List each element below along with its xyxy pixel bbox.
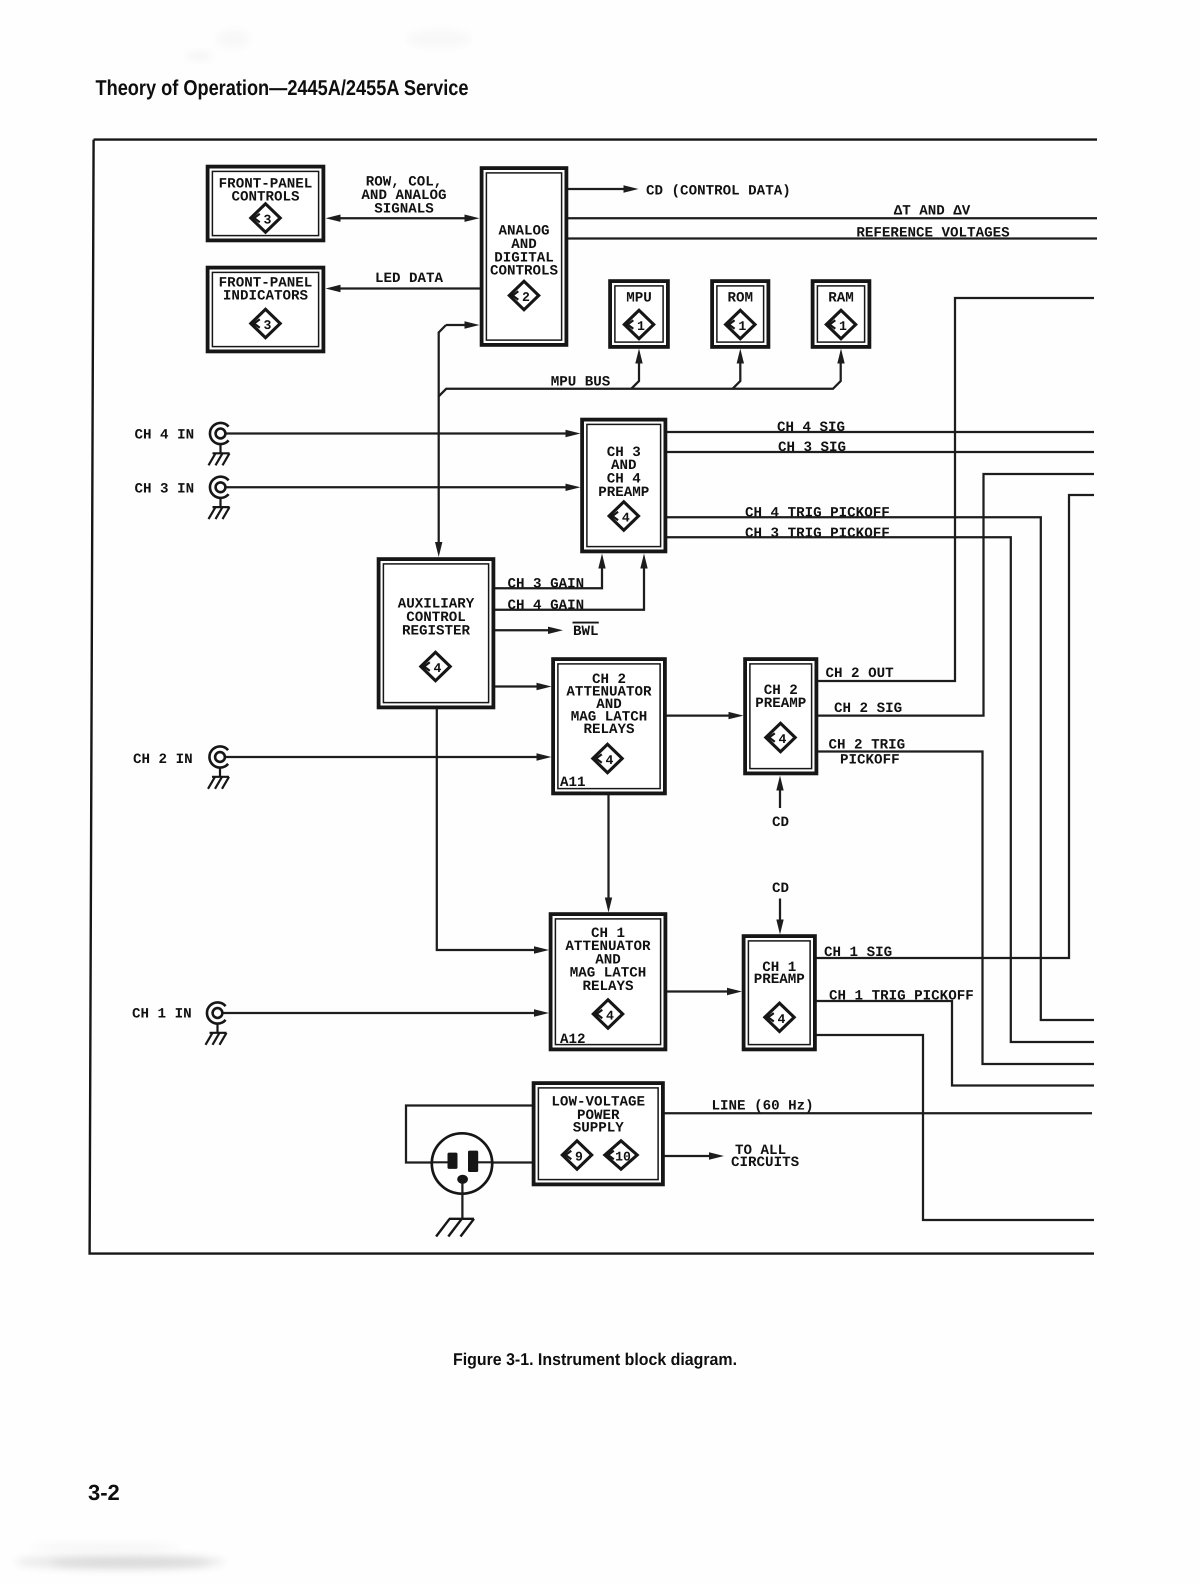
svg-text:Figure 3-1. Instrument block d: Figure 3-1. Instrument block diagram. <box>453 1350 737 1369</box>
svg-text:CH 3 TRIG PICKOFF: CH 3 TRIG PICKOFF <box>745 526 890 542</box>
connector CH 3 IN <box>210 477 229 498</box>
svg-text:A11: A11 <box>560 775 586 791</box>
svg-text:CH 4 TRIG PICKOFF: CH 4 TRIG PICKOFF <box>745 506 890 522</box>
svg-text:4: 4 <box>606 1009 614 1024</box>
block MPU (1) <box>610 281 668 347</box>
svg-text:CH 4 SIG: CH 4 SIG <box>777 420 845 436</box>
svg-text:SIGNALS: SIGNALS <box>374 201 434 217</box>
wire MPU riser <box>631 349 643 389</box>
wire MPU bus trunk with riser to analog controls and drop to auxiliary register <box>446 321 480 328</box>
wire CH 3 SIG <box>667 451 1094 453</box>
wire CD into CH 1 preamp <box>776 899 783 935</box>
scan smudge top <box>186 30 471 60</box>
wire CH 4 input <box>227 430 581 437</box>
svg-text:RELAYS: RELAYS <box>582 979 634 995</box>
block CH 1 PREAMP (4) <box>744 936 815 1049</box>
svg-text:2: 2 <box>522 290 530 305</box>
svg-text:CIRCUITS: CIRCUITS <box>731 1155 800 1171</box>
ground CH 3 IN <box>209 498 230 519</box>
block CH 3 AND CH 4 PREAMP (4) <box>582 420 665 552</box>
diagram border frame <box>90 140 1097 1254</box>
block CH 2 ATTENUATOR AND MAG LATCH RELAYS A11 (4) <box>553 659 665 793</box>
svg-text:RELAYS: RELAYS <box>583 722 635 738</box>
block CH 2 PREAMP (4) <box>745 659 816 773</box>
wire CH 4 SIG <box>667 431 1094 433</box>
svg-text:CH 4 IN: CH 4 IN <box>135 428 195 444</box>
svg-text:CONTROLS: CONTROLS <box>490 264 559 280</box>
svg-text:CD: CD <box>772 881 789 897</box>
wire power plug loop to supply <box>406 1106 532 1163</box>
block AUXILIARY CONTROL REGISTER (4) <box>379 559 494 707</box>
svg-text:1: 1 <box>738 319 746 334</box>
svg-text:4: 4 <box>778 1012 786 1027</box>
wire CH 2 SIG <box>818 474 1094 716</box>
block RAM (1) <box>813 281 870 347</box>
wire BWL output <box>495 627 563 634</box>
power plug <box>432 1133 492 1193</box>
svg-text:Theory of Operation—2445A/2455: Theory of Operation—2445A/2455A Service <box>96 76 469 100</box>
wire RAM riser arrowhead <box>837 349 844 364</box>
block FRONT-PANEL INDICATORS (3) <box>208 268 324 352</box>
wire CD control data output <box>568 185 639 192</box>
svg-text:4: 4 <box>622 511 630 526</box>
svg-text:CH 3 SIG: CH 3 SIG <box>778 440 846 456</box>
svg-text:CH 3 IN: CH 3 IN <box>135 482 195 498</box>
svg-text:9: 9 <box>575 1150 583 1165</box>
svg-text:CH 1 IN: CH 1 IN <box>132 1007 192 1023</box>
wire auxiliary register to CH 1 attenuator <box>437 709 549 954</box>
svg-text:3: 3 <box>264 213 272 228</box>
wire CH 2 TRIG PICKOFF <box>818 752 1094 1065</box>
block LOW-VOLTAGE POWER SUPPLY (9)(10) <box>534 1083 663 1184</box>
connector CH 2 IN <box>209 746 228 767</box>
wire delta T and delta V <box>568 217 1097 219</box>
wire CH 2 attenuator to CH 2 preamp <box>667 712 744 719</box>
label TO ALL CIRCUITS <box>731 1143 800 1171</box>
wire LINE 60 Hz <box>665 1112 1093 1114</box>
label ROW, COL, AND ANALOG SIGNALS <box>361 175 446 218</box>
wire power plug to ground <box>461 1184 463 1219</box>
svg-text:BWL: BWL <box>573 624 599 640</box>
ground CH 1 IN <box>206 1024 227 1045</box>
svg-text:MPU: MPU <box>626 291 652 307</box>
wire CH 4 TRIG PICKOFF <box>667 517 1094 1020</box>
wire CH 1 TRIG PICKOFF <box>817 1001 1095 1086</box>
svg-text:MPU BUS: MPU BUS <box>551 375 611 391</box>
svg-text:4: 4 <box>779 732 787 747</box>
svg-text:1: 1 <box>637 319 645 334</box>
svg-text:PREAMP: PREAMP <box>598 485 649 501</box>
ground CH 2 IN <box>208 768 229 789</box>
wire ROM riser <box>733 349 745 389</box>
connector CH 1 IN <box>207 1002 226 1023</box>
wire CH 3 TRIG PICKOFF <box>667 537 1094 1042</box>
wire MPU bus vertical <box>435 325 446 557</box>
svg-text:CH 2 OUT: CH 2 OUT <box>826 666 895 682</box>
svg-text:4: 4 <box>434 661 442 676</box>
svg-text:CD: CD <box>772 815 789 831</box>
block FRONT-PANEL CONTROLS (3) <box>208 167 324 241</box>
svg-text:INDICATORS: INDICATORS <box>223 289 309 305</box>
svg-text:SUPPLY: SUPPLY <box>573 1121 625 1137</box>
wire CH 2 attenuator to CH 1 attenuator <box>605 795 612 913</box>
wire CH 3 GAIN <box>495 554 606 589</box>
label CH 2 TRIG PICKOFF <box>829 738 906 769</box>
svg-text:CH 3 GAIN: CH 3 GAIN <box>508 577 585 593</box>
svg-text:4: 4 <box>606 753 614 768</box>
svg-text:3: 3 <box>264 318 272 333</box>
wire LED DATA analog controls to indicators <box>326 285 481 292</box>
wire MPU bus horizontal <box>439 362 841 396</box>
svg-text:CD (CONTROL DATA): CD (CONTROL DATA) <box>646 184 791 200</box>
scan smudge bottom left <box>15 1544 225 1570</box>
wire CH 4 GAIN <box>495 554 648 610</box>
wire CD into CH 2 preamp <box>776 776 783 809</box>
svg-text:PREAMP: PREAMP <box>755 696 806 712</box>
svg-text:RAM: RAM <box>828 291 854 307</box>
wire CH 1 attenuator to CH 1 preamp <box>667 988 742 995</box>
svg-text:LED DATA: LED DATA <box>375 271 444 287</box>
block ROM (1) <box>712 281 768 347</box>
svg-text:10: 10 <box>615 1150 631 1165</box>
svg-text:3-2: 3-2 <box>88 1480 120 1505</box>
wire CH 2 OUT <box>818 298 1094 681</box>
wire auxiliary register to CH 2 attenuator <box>495 683 552 690</box>
wire CH 1 SIG <box>817 495 1095 958</box>
wire front-panel controls to analog controls (bidirectional) <box>326 215 480 222</box>
wire power plug to supply <box>492 1161 532 1163</box>
svg-text:ROM: ROM <box>727 291 753 307</box>
wire reference voltages <box>568 237 1097 239</box>
wire CH 2 input <box>226 753 552 760</box>
svg-text:REGISTER: REGISTER <box>402 624 471 640</box>
connector CH 4 IN <box>210 423 229 444</box>
svg-text:1: 1 <box>839 319 847 334</box>
label BWL with overline <box>573 623 599 641</box>
wire CH 1 preamp auxiliary output <box>817 1035 1095 1220</box>
svg-text:PICKOFF: PICKOFF <box>840 753 900 769</box>
svg-text:CH 4 GAIN: CH 4 GAIN <box>508 598 585 614</box>
block ANALOG AND DIGITAL CONTROLS (2) <box>482 168 567 345</box>
svg-text:A12: A12 <box>560 1032 586 1048</box>
wire CH 1 input <box>224 1009 550 1016</box>
wire CH 3 input <box>227 484 581 491</box>
ground CH 4 IN <box>209 444 230 465</box>
svg-text:CH 2 IN: CH 2 IN <box>133 752 193 768</box>
ground power plug <box>436 1219 474 1237</box>
block CH 1 ATTENUATOR AND MAG LATCH RELAYS A12 (4) <box>551 914 666 1049</box>
wire TO ALL CIRCUITS <box>665 1152 725 1159</box>
svg-text:PREAMP: PREAMP <box>754 972 805 988</box>
